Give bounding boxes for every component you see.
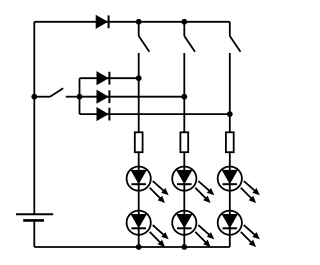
node branch2 / column2: [181, 94, 187, 100]
node diode bus: [77, 94, 83, 100]
LED D10: [218, 211, 260, 248]
wire top rail: [34, 21, 230, 23]
switch S2: [139, 22, 150, 52]
LED D8: [127, 211, 169, 248]
node top rail / S2: [136, 19, 142, 25]
switch S3: [184, 22, 195, 52]
LED D9: [172, 211, 214, 248]
node branch3 / column3: [227, 111, 233, 117]
wire left rail: [33, 22, 35, 215]
diode D4: [97, 108, 109, 121]
diode D1: [96, 15, 108, 28]
resistor R1: [135, 132, 143, 152]
wire branch 1: [80, 77, 139, 79]
wire diode bus: [66, 78, 80, 114]
resistor R3: [226, 132, 234, 152]
wire branch 2: [80, 96, 185, 98]
node bottom rail / column2: [181, 244, 187, 250]
LED D7: [218, 167, 260, 204]
battery B1: [16, 214, 53, 220]
node top rail / S3: [181, 19, 187, 25]
LED D6: [172, 167, 214, 204]
diode D3: [97, 90, 109, 103]
node left rail / S1: [31, 94, 37, 100]
wire column 3 upper: [229, 53, 231, 132]
diode D2: [97, 72, 109, 85]
wire column 2 upper: [183, 53, 185, 132]
node bottom rail / column1: [136, 244, 142, 250]
wire battery to bottom rail: [33, 220, 35, 247]
wire column 1 upper: [138, 53, 140, 132]
wire column 1 lower: [138, 152, 140, 247]
LED D5: [127, 167, 169, 204]
resistor R2: [180, 132, 188, 152]
wire column 3 lower: [229, 152, 231, 247]
switch S1: [34, 88, 63, 96]
wire branch 3: [80, 113, 230, 115]
wire bottom rail: [34, 246, 230, 248]
wire column 2 lower: [183, 152, 185, 247]
switch S4: [230, 22, 241, 52]
node branch1 / column1: [136, 75, 142, 81]
